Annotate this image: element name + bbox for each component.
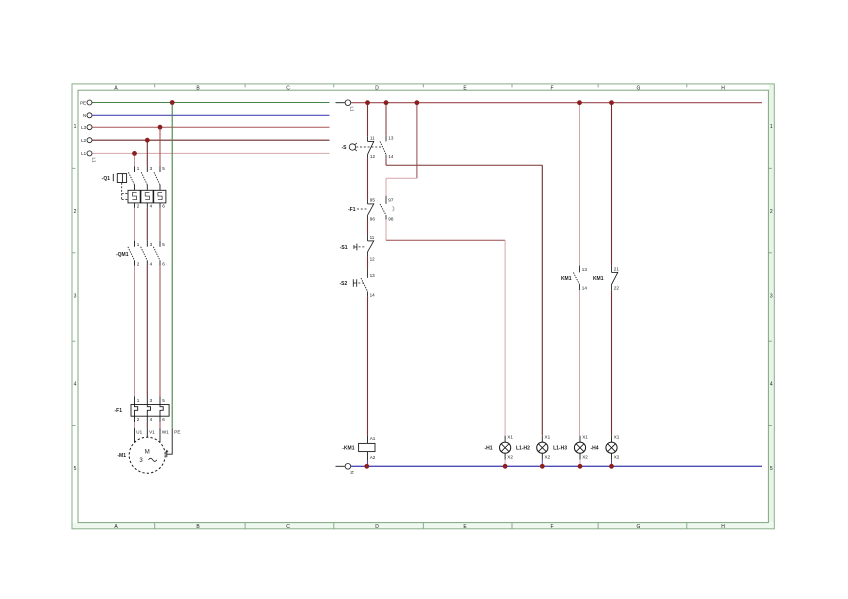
svg-text:5: 5 <box>162 166 165 171</box>
svg-text:1: 1 <box>137 166 140 171</box>
svg-text:-H4: -H4 <box>590 446 598 452</box>
svg-text:14: 14 <box>370 293 376 298</box>
svg-text:1: 1 <box>137 242 140 247</box>
svg-text:A1: A1 <box>370 436 376 441</box>
svg-text:14: 14 <box>388 154 394 159</box>
svg-text:21: 21 <box>614 267 620 272</box>
svg-text:L3: L3 <box>81 125 87 130</box>
svg-text:H: H <box>721 524 725 530</box>
svg-text:3: 3 <box>150 242 153 247</box>
svg-text:6: 6 <box>162 262 165 267</box>
svg-text:X1: X1 <box>545 435 551 440</box>
svg-text:L1: L1 <box>92 158 97 164</box>
svg-text:11: 11 <box>370 135 375 140</box>
svg-text:-F1: -F1 <box>348 207 356 213</box>
svg-text:X2: X2 <box>614 455 620 460</box>
svg-text:4: 4 <box>150 204 153 209</box>
svg-text:PE: PE <box>80 100 86 105</box>
svg-text:-QM1: -QM1 <box>116 252 129 258</box>
svg-text:PE: PE <box>174 429 180 434</box>
svg-text:2: 2 <box>137 204 140 209</box>
svg-text:N: N <box>349 471 354 474</box>
svg-text:3: 3 <box>150 398 153 403</box>
svg-text:13: 13 <box>388 135 394 140</box>
svg-text:1: 1 <box>137 398 140 403</box>
svg-text:KM1: KM1 <box>593 276 604 282</box>
svg-text:F: F <box>550 524 553 530</box>
svg-text:D: D <box>375 85 379 91</box>
svg-text:H: H <box>721 85 725 91</box>
svg-text:M: M <box>145 450 150 456</box>
svg-text:N: N <box>83 113 86 118</box>
svg-text:X1: X1 <box>582 435 588 440</box>
svg-text:-M1: -M1 <box>117 453 126 459</box>
svg-text:G: G <box>637 85 641 91</box>
svg-text:L1-H2: L1-H2 <box>516 446 530 452</box>
svg-text:98: 98 <box>388 216 394 221</box>
svg-text:95: 95 <box>370 198 376 203</box>
svg-text:13: 13 <box>370 273 376 278</box>
svg-text:-S1: -S1 <box>340 245 348 251</box>
svg-text:L2: L2 <box>81 138 87 143</box>
svg-text:3: 3 <box>74 294 77 300</box>
svg-text:2: 2 <box>74 209 77 215</box>
svg-text:4: 4 <box>770 382 773 388</box>
svg-text:4: 4 <box>150 262 153 267</box>
svg-text:14: 14 <box>582 286 588 291</box>
svg-text:U1: U1 <box>136 429 142 434</box>
svg-text:5: 5 <box>770 466 773 472</box>
svg-text:X2: X2 <box>545 455 551 460</box>
svg-text:KM1: KM1 <box>561 276 572 282</box>
svg-text:5: 5 <box>74 466 77 472</box>
svg-text:X1: X1 <box>507 435 513 440</box>
svg-text:5: 5 <box>162 398 165 403</box>
svg-text:D: D <box>375 524 379 530</box>
svg-text:C: C <box>286 85 290 91</box>
svg-text:L1-H3: L1-H3 <box>553 446 567 452</box>
svg-text:L1: L1 <box>349 107 354 113</box>
svg-text:97: 97 <box>388 198 394 203</box>
svg-text:6: 6 <box>162 417 165 422</box>
svg-text:V1: V1 <box>149 429 155 434</box>
svg-text:1: 1 <box>770 124 773 130</box>
svg-text:W1: W1 <box>162 429 169 434</box>
svg-text:F: F <box>550 85 553 91</box>
svg-text:5: 5 <box>162 242 165 247</box>
svg-text:X1: X1 <box>614 435 620 440</box>
svg-text:3: 3 <box>770 294 773 300</box>
svg-text:1: 1 <box>74 124 77 130</box>
svg-text:2: 2 <box>137 417 140 422</box>
svg-text:-KM1: -KM1 <box>342 446 354 452</box>
svg-text:X2: X2 <box>582 455 588 460</box>
svg-text:4: 4 <box>74 382 77 388</box>
svg-text:-F1: -F1 <box>115 408 123 414</box>
svg-text:22: 22 <box>614 286 620 291</box>
svg-text:13: 13 <box>582 267 588 272</box>
svg-text:-H1: -H1 <box>484 446 492 452</box>
svg-text:-S2: -S2 <box>340 281 348 287</box>
svg-text:L1: L1 <box>81 151 87 156</box>
svg-text:12: 12 <box>370 256 376 261</box>
svg-text:G: G <box>637 524 641 530</box>
svg-text:2: 2 <box>137 262 140 267</box>
svg-text:A2: A2 <box>370 455 376 460</box>
svg-text:4: 4 <box>150 417 153 422</box>
svg-text:96: 96 <box>370 216 376 221</box>
svg-text:6: 6 <box>162 204 165 209</box>
svg-text:C: C <box>286 524 290 530</box>
svg-text:3: 3 <box>150 166 153 171</box>
svg-text:-Q1: -Q1 <box>102 176 111 182</box>
svg-text:X2: X2 <box>507 455 513 460</box>
svg-text:11: 11 <box>370 235 375 240</box>
svg-text:12: 12 <box>370 154 376 159</box>
svg-text:-S: -S <box>342 145 348 151</box>
svg-text:2: 2 <box>770 209 773 215</box>
